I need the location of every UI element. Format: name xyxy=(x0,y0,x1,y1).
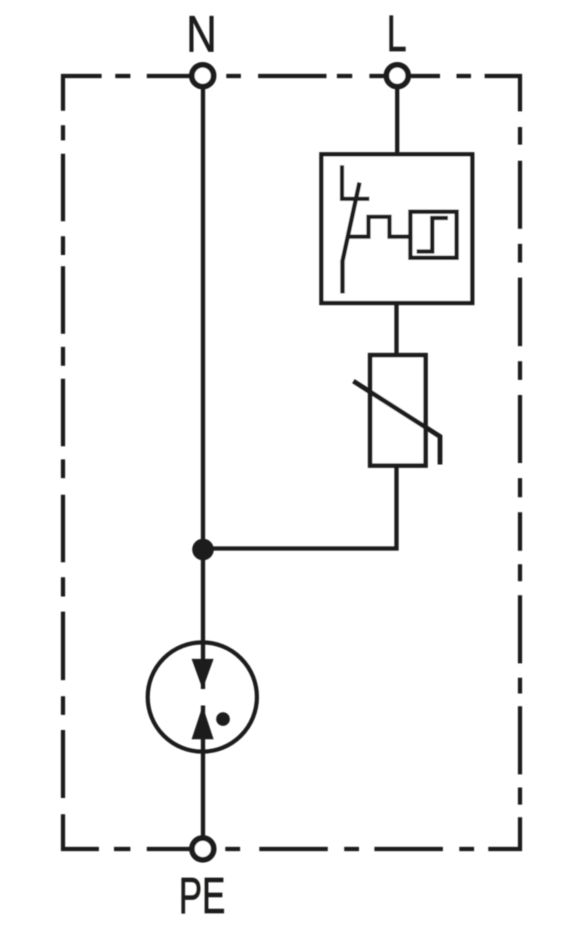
terminal L circle xyxy=(386,65,408,87)
disconnector switch contact (vertical lead) xyxy=(340,165,344,200)
spark gap upper arrow (down) xyxy=(192,659,214,689)
varistor strike diagonal with tail xyxy=(353,381,440,464)
spark gap circle xyxy=(148,642,257,751)
wire spark gap to PE terminal xyxy=(201,706,205,841)
signalling step link wire xyxy=(348,217,410,237)
step function symbol xyxy=(417,218,448,252)
disconnector switch blade (diagonal) xyxy=(343,183,360,294)
terminal PE circle xyxy=(192,838,214,860)
thermal disconnector box xyxy=(321,154,472,303)
svg-text:L: L xyxy=(387,5,407,62)
enclosure outline right (dash-dot) xyxy=(518,74,522,851)
junction node xyxy=(192,539,214,561)
wire varistor to junction (L-shaped) xyxy=(203,466,397,549)
svg-text:N: N xyxy=(186,5,217,62)
wire N terminal to junction and spark gap xyxy=(201,80,205,689)
enclosure outline left (dash-dot) xyxy=(61,74,65,851)
terminal N circle xyxy=(192,65,214,87)
disconnector switch contact bar xyxy=(340,197,369,201)
wire disconnector box to varistor xyxy=(394,303,398,355)
enclosure outline bottom (dash-dot) xyxy=(61,847,522,851)
spark gap lower arrow (up) xyxy=(192,706,214,739)
wire L terminal to disconnector box xyxy=(395,80,399,154)
varistor body xyxy=(370,355,426,466)
enclosure outline top (dash-dot) xyxy=(61,74,522,78)
spark gap trigger dot xyxy=(216,712,230,726)
svg-text:PE: PE xyxy=(179,867,226,924)
remote signalling box xyxy=(410,212,456,258)
